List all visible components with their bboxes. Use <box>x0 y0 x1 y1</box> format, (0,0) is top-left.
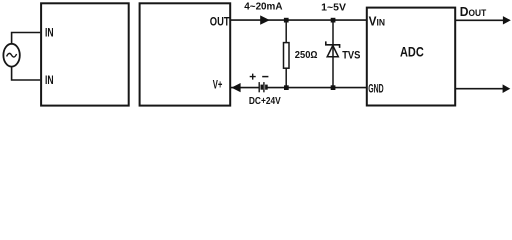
svg-text:250Ω: 250Ω <box>295 50 318 61</box>
svg-text:OUT: OUT <box>210 16 230 28</box>
svg-text:Dout: Dout <box>460 4 487 19</box>
svg-text:V+: V+ <box>213 77 223 91</box>
svg-text:4~20mA: 4~20mA <box>244 2 283 13</box>
svg-text:GND: GND <box>368 84 383 96</box>
svg-text:IN: IN <box>45 26 54 40</box>
svg-text:IN: IN <box>45 73 54 87</box>
svg-text:DC+24V: DC+24V <box>249 96 281 107</box>
svg-text:1~5V: 1~5V <box>321 3 346 14</box>
svg-text:TVS: TVS <box>342 49 360 61</box>
svg-text:ADC: ADC <box>400 44 424 59</box>
svg-text:Vin: Vin <box>369 15 385 29</box>
